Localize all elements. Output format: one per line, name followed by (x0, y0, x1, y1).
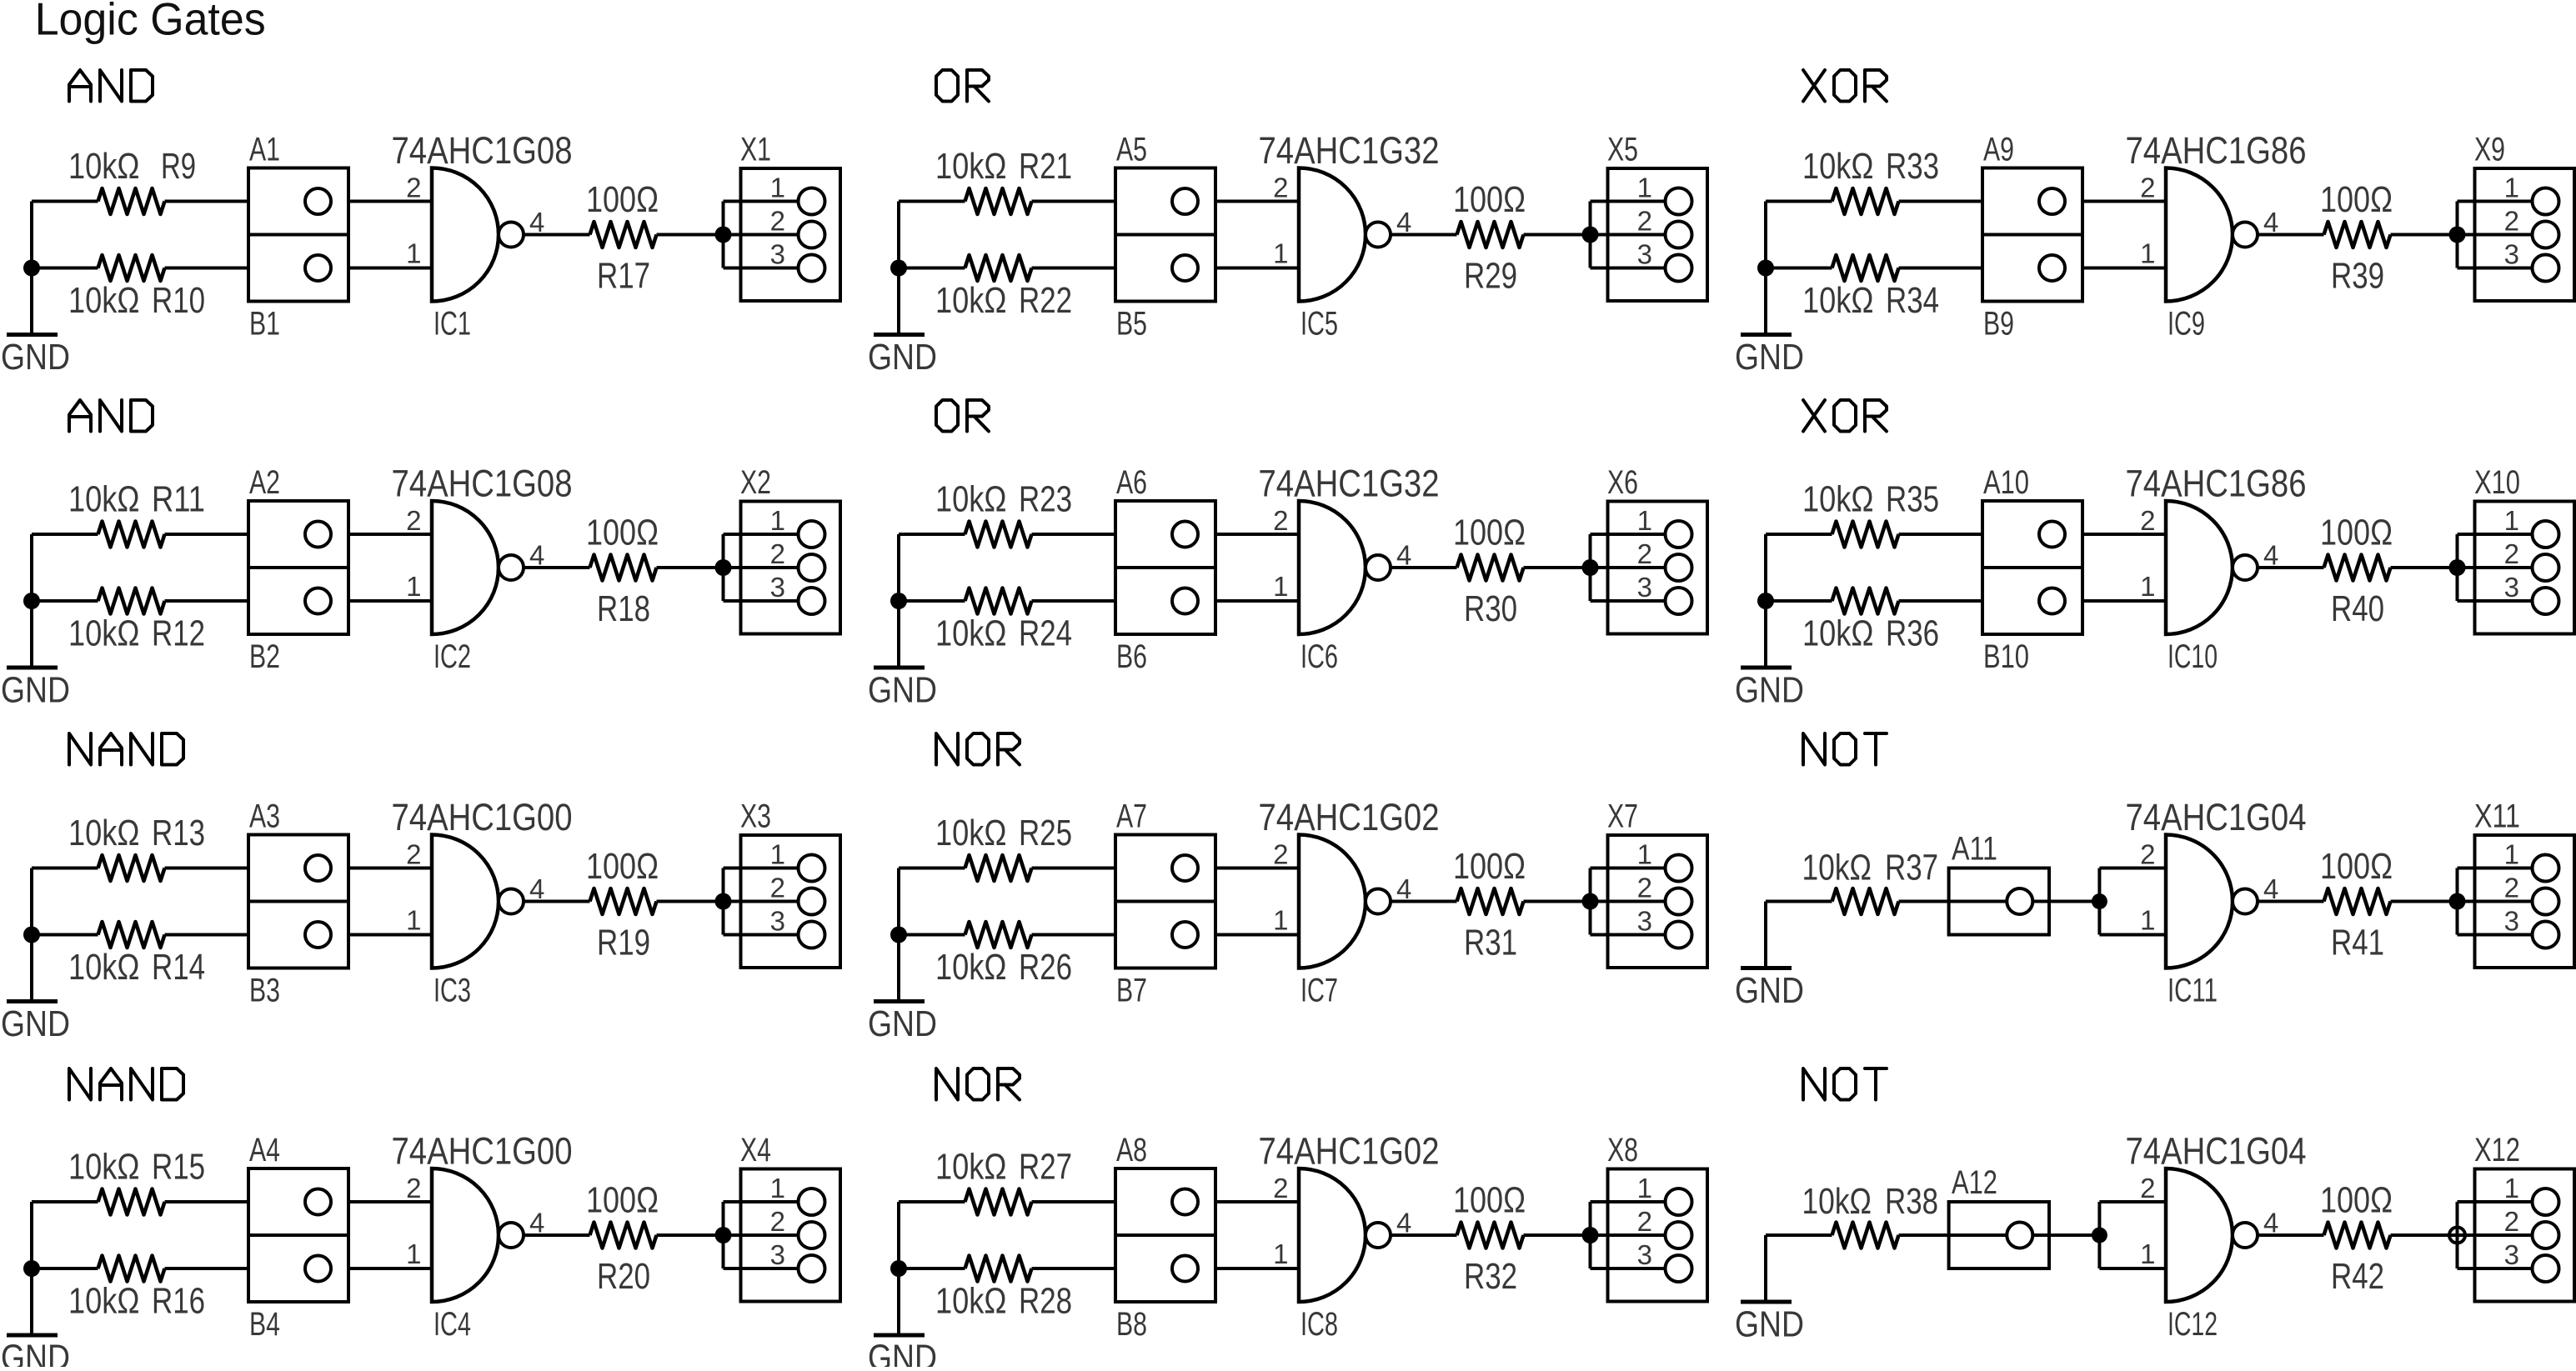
svg-text:X9: X9 (2474, 132, 2505, 168)
svg-text:R31: R31 (1464, 923, 1517, 963)
svg-text:100Ω: 100Ω (1453, 179, 1526, 220)
svg-text:4: 4 (1396, 207, 1411, 238)
resistor R26 10kΩ (965, 922, 1032, 948)
connector X3 (741, 835, 841, 968)
svg-text:1: 1 (2140, 1238, 2155, 1269)
gate IC5 74AHC1G32 (1299, 168, 1366, 302)
svg-text:X6: X6 (1607, 464, 1638, 501)
wire gate output to R20 (524, 1233, 590, 1237)
connector X11 (2475, 835, 2575, 968)
connector X10 (2475, 502, 2575, 634)
svg-text:B4: B4 (249, 1306, 280, 1343)
svg-text:10kΩ: 10kΩ (68, 813, 140, 853)
svg-text:A3: A3 (249, 798, 280, 835)
svg-text:R22: R22 (1019, 280, 1072, 321)
svg-text:IC9: IC9 (2168, 306, 2205, 343)
connector X7 (1608, 835, 1708, 968)
resistor R18 100Ω (590, 555, 657, 581)
wire gate output to R18 (524, 566, 590, 569)
wire X12 pin bus (2458, 1202, 2533, 1268)
svg-text:4: 4 (529, 873, 544, 904)
gate IC1 74AHC1G08 (432, 168, 499, 302)
wire from GND bus to R21 (899, 200, 965, 203)
wire from GND bus to R33 (1766, 200, 1832, 203)
wire B10 to gate pin 1 (2082, 599, 2166, 603)
junction node GND (23, 260, 40, 277)
svg-text:3: 3 (770, 572, 785, 603)
wire X1 pin bus (724, 202, 799, 268)
wire R40 to connector X10 (2391, 566, 2458, 569)
svg-text:GND: GND (1735, 970, 1804, 1011)
wire from GND to R37 (1766, 900, 1832, 903)
svg-text:IC10: IC10 (2168, 638, 2218, 675)
junction node GND (890, 927, 907, 943)
wire GND bus vertical (897, 868, 900, 935)
svg-text:4: 4 (2263, 1208, 2278, 1238)
svg-text:X4: X4 (740, 1132, 771, 1168)
wire R19 to connector X3 (657, 900, 724, 903)
svg-text:2: 2 (406, 173, 421, 203)
ground GND (897, 1268, 900, 1335)
svg-text:1: 1 (2140, 571, 2155, 602)
ground GND (897, 268, 900, 335)
svg-text:X5: X5 (1607, 132, 1638, 168)
junction node at X5 (1582, 227, 1599, 243)
svg-text:A10: A10 (1983, 464, 2029, 501)
svg-text:B7: B7 (1116, 973, 1147, 1009)
label XOR (1803, 70, 1825, 102)
svg-text:2: 2 (2504, 1206, 2519, 1237)
svg-text:2: 2 (1637, 1206, 1652, 1237)
jumper A6/B6 (1115, 501, 1215, 634)
svg-text:1: 1 (1273, 238, 1288, 269)
svg-text:B10: B10 (1983, 638, 2029, 675)
resistor R40 100Ω (2324, 555, 2391, 581)
svg-text:R21: R21 (1019, 146, 1072, 187)
svg-text:B9: B9 (1983, 306, 2014, 343)
wire R25 to jumper A7 (1032, 867, 1116, 870)
svg-text:R18: R18 (597, 588, 650, 629)
svg-text:1: 1 (1637, 505, 1652, 536)
svg-text:10kΩ: 10kΩ (935, 813, 1007, 853)
svg-text:100Ω: 100Ω (1453, 846, 1526, 887)
svg-text:1: 1 (2140, 238, 2155, 269)
wire R32 to connector X8 (1524, 1233, 1591, 1237)
svg-text:IC6: IC6 (1301, 638, 1338, 675)
label NAND (69, 1068, 91, 1100)
svg-text:4: 4 (529, 1208, 544, 1238)
wire R27 to jumper A8 (1032, 1200, 1116, 1203)
svg-text:1: 1 (406, 571, 421, 602)
svg-text:B2: B2 (249, 638, 280, 675)
svg-text:R32: R32 (1464, 1256, 1517, 1297)
svg-text:1: 1 (1273, 1238, 1288, 1269)
resistor R28 10kΩ (965, 1256, 1032, 1282)
wire gate output to R19 (524, 900, 590, 903)
wire GND bus vertical (1764, 534, 1767, 601)
wire R9 to jumper A1 (165, 200, 249, 203)
svg-text:R41: R41 (2331, 923, 2384, 963)
svg-text:A12: A12 (1952, 1164, 1997, 1201)
resistor R10 10kΩ (98, 255, 165, 281)
jumper A8/B8 (1115, 1168, 1215, 1302)
wire input bracket to pins 2 and 1 (2099, 1202, 2166, 1268)
svg-text:IC7: IC7 (1301, 973, 1338, 1009)
resistor R17 100Ω (590, 222, 657, 248)
junction node GND (890, 260, 907, 277)
connector X12 (2475, 1169, 2575, 1302)
label AND (69, 400, 91, 432)
wire B8 to gate pin 1 (1215, 1267, 1299, 1270)
svg-text:R30: R30 (1464, 588, 1517, 629)
wire R13 to jumper A3 (165, 867, 249, 870)
svg-text:3: 3 (2504, 572, 2519, 603)
svg-text:10kΩ: 10kΩ (68, 613, 140, 654)
connector X9 (2475, 168, 2575, 301)
svg-text:3: 3 (1637, 906, 1652, 937)
wire R22 to jumper B5 (1032, 267, 1116, 270)
wire from GND junction to R14 (32, 933, 98, 937)
wire gate output to R39 (2258, 233, 2324, 237)
resistor R16 10kΩ (98, 1256, 165, 1282)
svg-text:R16: R16 (152, 1281, 205, 1322)
svg-text:R40: R40 (2331, 588, 2384, 629)
jumper A1/B1 (248, 168, 348, 302)
gate IC3 74AHC1G00 (432, 835, 499, 968)
wire X4 pin bus (724, 1202, 799, 1268)
svg-text:4: 4 (2263, 207, 2278, 238)
wire A1 to gate pin 2 (348, 200, 432, 203)
svg-text:R27: R27 (1019, 1147, 1072, 1188)
svg-text:2: 2 (1273, 839, 1288, 870)
svg-text:Logic Gates: Logic Gates (35, 0, 266, 45)
svg-text:A7: A7 (1116, 798, 1147, 835)
svg-text:2: 2 (406, 1173, 421, 1203)
wire from GND to R38 (1766, 1233, 1832, 1237)
wire A10 to gate pin 2 (2082, 533, 2166, 536)
ground GND (1764, 902, 1767, 968)
junction node at X4 (715, 1227, 732, 1243)
svg-text:10kΩ: 10kΩ (1802, 1181, 1872, 1222)
svg-text:100Ω: 100Ω (2320, 846, 2393, 887)
svg-text:IC12: IC12 (2168, 1306, 2218, 1343)
wire R14 to jumper B3 (165, 933, 249, 937)
wire R39 to connector X9 (2391, 233, 2458, 237)
svg-text:B6: B6 (1116, 638, 1147, 675)
jumper A9/B9 (1982, 168, 2082, 302)
resistor R20 100Ω (590, 1223, 657, 1248)
wire B4 to gate pin 1 (348, 1267, 432, 1270)
resistor R14 10kΩ (98, 922, 165, 948)
wire R16 to jumper B4 (165, 1267, 249, 1270)
wire GND bus vertical (30, 202, 33, 268)
svg-text:1: 1 (2504, 173, 2519, 203)
svg-text:10kΩ: 10kΩ (1802, 280, 1874, 321)
wire X7 pin bus (1591, 868, 1666, 935)
resistor R27 10kΩ (965, 1189, 1032, 1215)
svg-text:R15: R15 (152, 1147, 205, 1188)
wire X6 pin bus (1591, 534, 1666, 601)
svg-text:1: 1 (2140, 905, 2155, 936)
gate IC7 74AHC1G02 (1299, 835, 1366, 968)
svg-text:10kΩ: 10kΩ (935, 280, 1007, 321)
svg-text:3: 3 (1637, 572, 1652, 603)
svg-text:100Ω: 100Ω (2320, 1180, 2393, 1221)
wire B1 to gate pin 1 (348, 267, 432, 270)
svg-text:1: 1 (770, 505, 785, 536)
wire gate output to R41 (2258, 900, 2324, 903)
wire from GND bus to R23 (899, 533, 965, 536)
wire R42 to connector X12 (2391, 1233, 2458, 1237)
junction node at X8 (1582, 1227, 1599, 1243)
svg-text:GND: GND (1, 670, 70, 711)
resistor R15 10kΩ (98, 1189, 165, 1215)
svg-text:R13: R13 (152, 813, 205, 853)
svg-text:R20: R20 (597, 1256, 650, 1297)
resistor R21 10kΩ (965, 188, 1032, 214)
resistor R30 100Ω (1457, 555, 1524, 581)
svg-text:4: 4 (529, 540, 544, 571)
svg-text:1: 1 (406, 238, 421, 269)
svg-text:100Ω: 100Ω (586, 846, 659, 887)
wire R38 to jumper A12 (1899, 1233, 1949, 1237)
wire GND bus vertical (30, 534, 33, 601)
svg-text:R24: R24 (1019, 613, 1072, 654)
connector X6 (1608, 502, 1708, 634)
svg-text:4: 4 (1396, 873, 1411, 904)
svg-text:1: 1 (1273, 571, 1288, 602)
svg-text:GND: GND (868, 1003, 937, 1044)
resistor R12 10kΩ (98, 588, 165, 614)
resistor R11 10kΩ (98, 522, 165, 548)
wire from GND junction to R16 (32, 1267, 98, 1270)
svg-text:R9: R9 (161, 146, 196, 187)
wire from GND junction to R24 (899, 599, 965, 603)
svg-text:2: 2 (2504, 206, 2519, 237)
wire A5 to gate pin 2 (1215, 200, 1299, 203)
svg-text:100Ω: 100Ω (1453, 1180, 1526, 1221)
svg-text:10kΩ: 10kΩ (935, 479, 1007, 520)
svg-text:1: 1 (770, 173, 785, 203)
svg-text:A11: A11 (1952, 831, 1997, 868)
svg-text:2: 2 (770, 873, 785, 903)
svg-text:10kΩ: 10kΩ (935, 613, 1007, 654)
svg-text:GND: GND (1735, 670, 1804, 711)
wire A6 to gate pin 2 (1215, 533, 1299, 536)
wire from GND junction to R34 (1766, 267, 1832, 270)
wire A4 to gate pin 2 (348, 1200, 432, 1203)
svg-text:R36: R36 (1886, 613, 1939, 654)
svg-text:A1: A1 (249, 132, 280, 168)
junction node GND (23, 1260, 40, 1277)
svg-text:R11: R11 (152, 479, 205, 520)
gate IC9 74AHC1G86 (2166, 168, 2233, 302)
wire gate output to R31 (1391, 900, 1457, 903)
label XOR (1803, 400, 1825, 432)
svg-text:2: 2 (1273, 173, 1288, 203)
wire R29 to connector X5 (1524, 233, 1591, 237)
junction node inputs (2092, 1228, 2107, 1243)
resistor R24 10kΩ (965, 588, 1032, 614)
wire R34 to jumper B9 (1899, 267, 1983, 270)
junction node at X10 (2449, 559, 2466, 576)
junction node at X11 (2449, 893, 2466, 910)
jumper A12 (1949, 1202, 2049, 1268)
svg-text:R39: R39 (2331, 256, 2384, 297)
svg-text:10kΩ: 10kΩ (1802, 479, 1874, 520)
connector X8 (1608, 1169, 1708, 1302)
svg-text:3: 3 (2504, 906, 2519, 937)
wire GND bus vertical (30, 1202, 33, 1268)
wire from GND junction to R26 (899, 933, 965, 937)
svg-text:R19: R19 (597, 923, 650, 963)
connector X4 (741, 1169, 841, 1302)
svg-text:2: 2 (2504, 873, 2519, 903)
wire from GND bus to R15 (32, 1200, 98, 1203)
ground GND (30, 268, 33, 335)
svg-text:X1: X1 (740, 132, 771, 168)
wire X11 pin bus (2458, 868, 2533, 935)
wire R10 to jumper B1 (165, 267, 249, 270)
svg-text:IC1: IC1 (434, 306, 471, 343)
resistor R25 10kΩ (965, 855, 1032, 881)
svg-text:2: 2 (2140, 839, 2155, 870)
junction node at X6 (1582, 559, 1599, 576)
svg-text:3: 3 (770, 239, 785, 270)
svg-text:74AHC1G08: 74AHC1G08 (392, 129, 573, 172)
wire gate output to R29 (1391, 233, 1457, 237)
svg-text:1: 1 (2504, 505, 2519, 536)
svg-text:74AHC1G86: 74AHC1G86 (2126, 463, 2307, 505)
svg-text:1: 1 (1637, 1173, 1652, 1203)
svg-text:74AHC1G00: 74AHC1G00 (392, 1130, 573, 1173)
jumper A4/B4 (248, 1168, 348, 1302)
wire B9 to gate pin 1 (2082, 267, 2166, 270)
svg-text:100Ω: 100Ω (2320, 513, 2393, 553)
svg-text:R23: R23 (1019, 479, 1072, 520)
resistor R34 10kΩ (1832, 255, 1899, 281)
svg-text:74AHC1G00: 74AHC1G00 (392, 796, 573, 838)
wire from GND bus to R13 (32, 867, 98, 870)
svg-text:100Ω: 100Ω (586, 179, 659, 220)
resistor R32 100Ω (1457, 1223, 1524, 1248)
svg-text:R34: R34 (1886, 280, 1939, 321)
wire B2 to gate pin 1 (348, 599, 432, 603)
wire from GND bus to R11 (32, 533, 98, 536)
wire gate output to R30 (1391, 566, 1457, 569)
connector X5 (1608, 168, 1708, 301)
svg-text:10kΩ: 10kΩ (68, 1281, 140, 1322)
jumper A2/B2 (248, 501, 348, 634)
jumper A5/B5 (1115, 168, 1215, 302)
svg-text:R35: R35 (1886, 479, 1939, 520)
svg-text:A5: A5 (1116, 132, 1147, 168)
svg-text:2: 2 (2504, 538, 2519, 569)
label NOR (936, 733, 958, 765)
svg-text:3: 3 (1637, 1239, 1652, 1270)
svg-text:100Ω: 100Ω (586, 1180, 659, 1221)
wire from GND bus to R27 (899, 1200, 965, 1203)
gate IC6 74AHC1G32 (1299, 501, 1366, 634)
wire input bracket to pins 2 and 1 (2099, 868, 2166, 935)
svg-text:GND: GND (1, 1003, 70, 1044)
svg-text:R14: R14 (152, 947, 205, 988)
svg-text:GND: GND (1735, 337, 1804, 378)
svg-text:3: 3 (2504, 239, 2519, 270)
svg-text:R26: R26 (1019, 947, 1072, 988)
resistor R9 10kΩ (98, 188, 165, 214)
wire B7 to gate pin 1 (1215, 933, 1299, 937)
svg-text:R42: R42 (2331, 1256, 2384, 1297)
wire R23 to jumper A6 (1032, 533, 1116, 536)
svg-text:GND: GND (868, 1338, 937, 1368)
svg-text:A9: A9 (1983, 132, 2014, 168)
resistor R36 10kΩ (1832, 588, 1899, 614)
svg-text:3: 3 (2504, 1239, 2519, 1270)
svg-text:B5: B5 (1116, 306, 1147, 343)
svg-text:100Ω: 100Ω (2320, 179, 2393, 220)
label NOT (1803, 733, 1825, 765)
wire R35 to jumper A10 (1899, 533, 1983, 536)
gate IC11 74AHC1G04 (2166, 835, 2233, 968)
svg-text:10kΩ: 10kΩ (935, 1281, 1007, 1322)
svg-text:X11: X11 (2474, 798, 2520, 835)
svg-text:10kΩ: 10kΩ (1802, 848, 1872, 888)
gate IC4 74AHC1G00 (432, 1168, 499, 1302)
resistor R41 100Ω (2324, 888, 2391, 914)
svg-text:2: 2 (770, 206, 785, 237)
wire GND bus vertical (897, 202, 900, 268)
resistor R19 100Ω (590, 888, 657, 914)
junction node at X1 (715, 227, 732, 243)
junction node GND (23, 593, 40, 609)
svg-text:IC5: IC5 (1301, 306, 1338, 343)
svg-text:2: 2 (770, 538, 785, 569)
svg-text:IC2: IC2 (434, 638, 471, 675)
svg-text:10kΩ: 10kΩ (68, 947, 140, 988)
svg-text:1: 1 (2504, 1173, 2519, 1203)
wire R15 to jumper A4 (165, 1200, 249, 1203)
junction node at X2 (715, 559, 732, 576)
svg-text:1: 1 (1637, 839, 1652, 870)
resistor R29 100Ω (1457, 222, 1524, 248)
wire from GND junction to R22 (899, 267, 965, 270)
svg-text:2: 2 (1273, 505, 1288, 536)
svg-text:X10: X10 (2474, 464, 2520, 501)
wire R18 to connector X2 (657, 566, 724, 569)
svg-text:X12: X12 (2474, 1132, 2520, 1168)
svg-text:74AHC1G32: 74AHC1G32 (1259, 463, 1440, 505)
svg-text:74AHC1G08: 74AHC1G08 (392, 463, 573, 505)
svg-text:74AHC1G86: 74AHC1G86 (2126, 129, 2307, 172)
svg-text:10kΩ: 10kΩ (935, 146, 1007, 187)
ground GND (30, 601, 33, 668)
junction node GND (890, 593, 907, 609)
wire from GND junction to R12 (32, 599, 98, 603)
svg-text:2: 2 (770, 1206, 785, 1237)
wire A8 to gate pin 2 (1215, 1200, 1299, 1203)
wire X5 pin bus (1591, 202, 1666, 268)
junction node GND (23, 927, 40, 943)
wire from GND bus to R35 (1766, 533, 1832, 536)
wire from GND junction to R28 (899, 1267, 965, 1270)
svg-text:GND: GND (1735, 1304, 1804, 1345)
jumper A7/B7 (1115, 835, 1215, 968)
svg-text:2: 2 (2140, 1173, 2155, 1203)
wire GND bus vertical (30, 868, 33, 935)
junction node inputs (2092, 893, 2107, 909)
ground GND (1764, 601, 1767, 668)
